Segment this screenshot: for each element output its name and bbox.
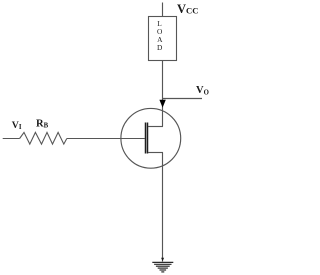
svg-text:D: D xyxy=(157,43,163,52)
svg-text:VO: VO xyxy=(196,85,209,97)
svg-text:VI: VI xyxy=(12,120,22,131)
svg-text:RB: RB xyxy=(36,118,49,129)
svg-text:VCC: VCC xyxy=(177,2,198,16)
